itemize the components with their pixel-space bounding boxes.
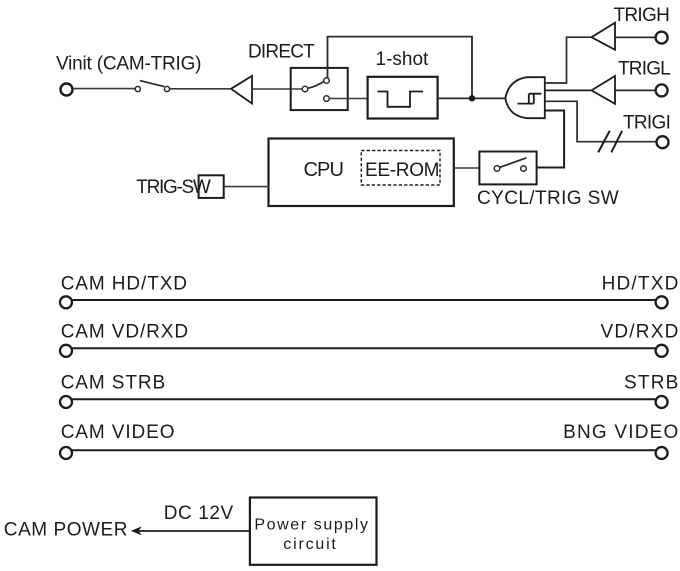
box CYCL/TRIG SW xyxy=(479,152,536,185)
hysteresis symbol inside U1 xyxy=(518,94,542,104)
wire U1 output to TRIGL buffer xyxy=(545,89,591,91)
terminal BNG VIDEO xyxy=(656,447,668,459)
terminal HD/TXD xyxy=(656,296,668,308)
wire TRIG-SW box to CPU xyxy=(224,186,269,188)
isolation slashes on TRIGI line xyxy=(598,131,610,153)
svg-text:CAM HD/TXD: CAM HD/TXD xyxy=(61,274,188,295)
svg-text:TRIG-SW: TRIG-SW xyxy=(136,177,211,198)
terminal CAM VIDEO xyxy=(60,447,72,459)
box 1-shot xyxy=(368,77,438,119)
terminal STRB xyxy=(656,396,668,408)
svg-text:CAM VIDEO: CAM VIDEO xyxy=(61,422,176,443)
svg-text:HD/TXD: HD/TXD xyxy=(602,274,680,295)
terminal VD/RXD xyxy=(656,345,668,357)
wire STRB line xyxy=(72,398,656,400)
switch S2 (DIRECT selector) xyxy=(302,78,329,102)
buffer TRIGH (left-pointing triangle) xyxy=(592,23,616,50)
svg-text:CPU: CPU xyxy=(304,159,344,181)
box EE-ROM (dashed) xyxy=(361,151,440,186)
wire U1 output to TRIGH buffer xyxy=(545,37,591,83)
svg-text:Power supply: Power supply xyxy=(254,516,369,533)
terminal Vinit input xyxy=(61,84,73,96)
svg-text:TRIGH: TRIGH xyxy=(614,5,670,26)
wire into DIRECT pole xyxy=(291,88,302,90)
svg-text:1-shot: 1-shot xyxy=(376,49,430,70)
wire feedback from DIRECT upper throw to junction xyxy=(328,37,473,96)
wire 1-shot to gate U1 xyxy=(438,97,505,99)
wire TRIGH buffer to terminal xyxy=(615,36,655,38)
wire HD/TXD line xyxy=(72,299,656,301)
wire switch S1 to buffer A1 xyxy=(170,88,231,90)
gate U1 (schmitt trigger, left-pointing bullet shape) xyxy=(505,77,545,118)
box around SW of TRIG-SW xyxy=(199,175,224,198)
switch S1 (CAM-TRIG line switch) xyxy=(135,81,169,92)
svg-text:STRB: STRB xyxy=(624,372,679,393)
terminal CAM HD/TXD xyxy=(60,296,72,308)
wire DIRECT lower throw to 1-shot xyxy=(329,98,367,100)
svg-text:DIRECT: DIRECT xyxy=(248,42,315,63)
wire CPU to CYCL/TRIG SW box xyxy=(454,167,480,169)
wire buffer A1 to DIRECT switch box xyxy=(252,88,291,90)
svg-text:circuit: circuit xyxy=(283,536,337,553)
terminal TRIGI xyxy=(657,136,669,148)
svg-text:TRIGL: TRIGL xyxy=(618,58,670,79)
svg-text:TRIGI: TRIGI xyxy=(623,112,670,133)
terminal CAM VD/RXD xyxy=(60,345,72,357)
svg-text:CAM STRB: CAM STRB xyxy=(61,372,166,393)
wire TRIGL buffer to terminal xyxy=(615,89,655,91)
svg-text:CYCL/TRIG SW: CYCL/TRIG SW xyxy=(477,188,619,209)
terminal TRIGH xyxy=(656,32,668,44)
waveform pulse symbol inside 1-shot xyxy=(378,92,424,107)
wire VD/RXD line xyxy=(72,347,656,349)
switch box DIRECT xyxy=(291,68,348,110)
svg-text:CAM POWER: CAM POWER xyxy=(4,519,128,540)
wire Vinit to switch S1 xyxy=(73,88,135,90)
buffer A1 (left-pointing triangle) xyxy=(231,76,252,104)
box CPU xyxy=(269,139,454,207)
svg-text:CAM VD/RXD: CAM VD/RXD xyxy=(61,321,189,342)
terminal TRIGL xyxy=(656,84,668,96)
switch S3 (CYCL/TRIG selector) xyxy=(494,158,526,172)
svg-text:BNG VIDEO: BNG VIDEO xyxy=(563,422,679,443)
terminal CAM STRB xyxy=(60,396,72,408)
wire VIDEO line xyxy=(72,449,656,451)
buffer TRIGL (left-pointing triangle) xyxy=(592,76,616,104)
box power supply circuit xyxy=(250,498,377,565)
junction dot xyxy=(469,95,475,101)
svg-text:Vinit (CAM-TRIG): Vinit (CAM-TRIG) xyxy=(56,54,201,75)
arrowhead to CAM POWER xyxy=(131,526,142,535)
svg-text:DC 12V: DC 12V xyxy=(164,503,234,524)
wire U1 output to TRIGI line xyxy=(545,101,656,141)
wire DC 12V power line xyxy=(138,530,250,532)
svg-text:VD/RXD: VD/RXD xyxy=(601,321,680,342)
svg-text:EE-ROM: EE-ROM xyxy=(365,160,439,181)
wire U1 output to CYCL/TRIG SW xyxy=(537,111,565,168)
